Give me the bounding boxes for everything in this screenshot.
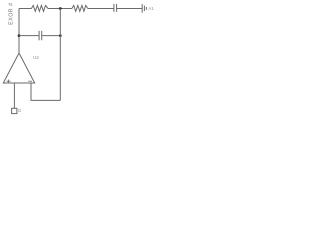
resistor R1 [31,5,48,11]
wire non-inverting input stub [13,83,15,108]
capacitor C1 [113,4,115,12]
svg-text:A1: A1 [148,6,154,11]
ground (rotated earth symbol) [141,4,143,13]
op-amp U2 triangle [3,53,34,83]
wire C2 to node C [42,35,61,37]
port P1 square [12,108,17,113]
capacitor C2 (feedback) [38,31,40,41]
node A junction dot [59,7,62,10]
wire R2 to capacitor C1 [88,8,114,10]
wire node B to capacitor C2 [19,35,39,37]
node B junction dot [18,34,21,37]
wire top-left corner to resistor R1 [19,8,32,10]
op-amp - input mark [28,80,32,82]
op-amp + input mark [7,80,11,83]
wire right vertical (node A down) [59,9,61,101]
svg-text:U2: U2 [33,55,39,60]
node C junction dot [59,34,62,37]
wire bottom return to inverting input [31,83,60,100]
wire output net (left vertical) [18,9,20,54]
wire C1 to ground [117,8,143,10]
svg-text:EXOR #: EXOR # [9,2,15,24]
wire R1 to node A [48,8,72,10]
resistor R2 [72,5,88,11]
